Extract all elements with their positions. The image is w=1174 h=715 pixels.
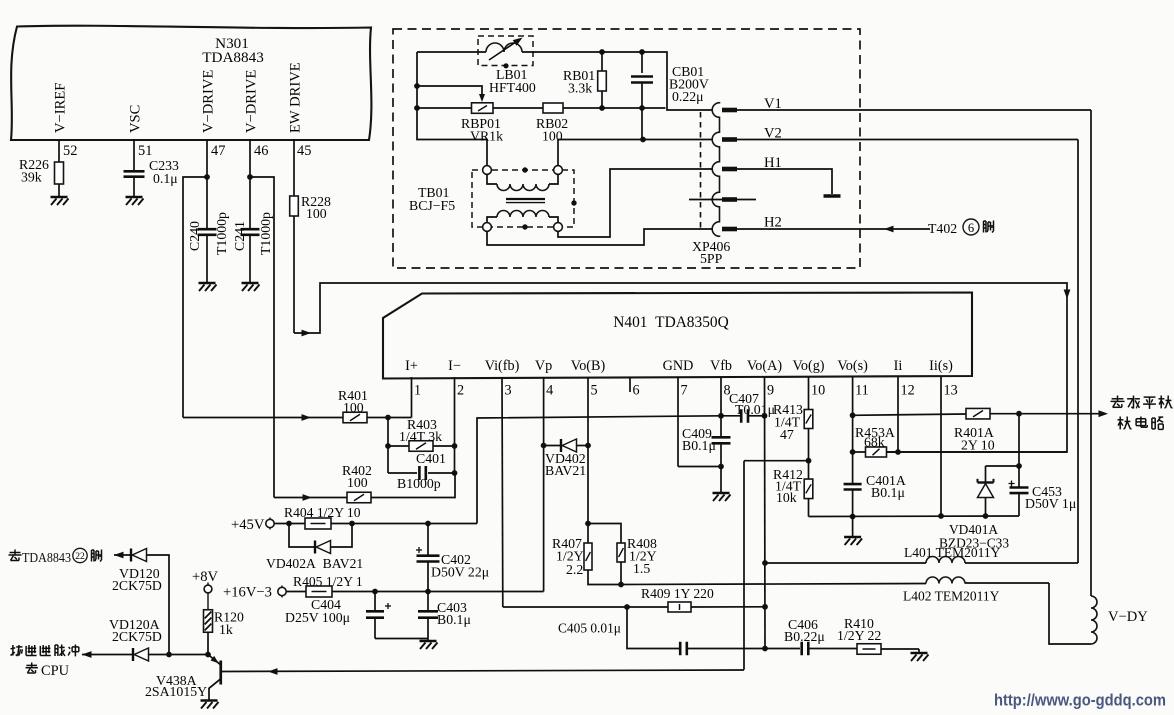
svg-text:B0.1μ: B0.1μ <box>682 438 716 453</box>
svg-text:BCJ−F5: BCJ−F5 <box>409 198 455 213</box>
svg-text:Vo(s): Vo(s) <box>837 358 868 374</box>
svg-text:N401 TDA8350Q: N401 TDA8350Q <box>613 314 728 331</box>
svg-text:100: 100 <box>542 129 563 144</box>
svg-text:47: 47 <box>211 143 225 159</box>
svg-text:+8V: +8V <box>192 569 219 585</box>
svg-text:22: 22 <box>75 551 85 562</box>
svg-text:B0.22μ: B0.22μ <box>784 629 825 644</box>
svg-text:I+: I+ <box>405 358 418 374</box>
svg-text:T0.01μ: T0.01μ <box>735 402 775 417</box>
svg-text:1.5: 1.5 <box>633 561 650 576</box>
svg-text:4: 4 <box>546 383 553 399</box>
svg-text:CPU: CPU <box>41 663 70 679</box>
svg-text:B0.1μ: B0.1μ <box>871 485 905 500</box>
svg-text:http://www.go-gddq.com: http://www.go-gddq.com <box>994 692 1166 710</box>
svg-text:52: 52 <box>63 143 77 159</box>
svg-text:0.22μ: 0.22μ <box>672 89 704 104</box>
svg-text:3: 3 <box>505 383 512 399</box>
svg-text:2.2: 2.2 <box>566 562 583 577</box>
svg-text:R404 1/2Y 10: R404 1/2Y 10 <box>284 505 361 520</box>
svg-text:GND: GND <box>663 358 694 374</box>
svg-text:R409 1Y 220: R409 1Y 220 <box>641 586 714 601</box>
svg-text:68k: 68k <box>864 435 885 450</box>
svg-text:C405 0.01μ: C405 0.01μ <box>558 621 621 636</box>
svg-text:V−DY: V−DY <box>1108 609 1148 625</box>
svg-text:9: 9 <box>767 383 774 399</box>
svg-text:11: 11 <box>855 383 869 399</box>
svg-text:2SA1015Y: 2SA1015Y <box>145 684 207 699</box>
svg-text:C240: C240 <box>187 221 202 251</box>
svg-text:Vi(fb): Vi(fb) <box>485 358 520 374</box>
svg-text:L401 TEM2011Y: L401 TEM2011Y <box>904 545 1001 560</box>
svg-text:1/2Y 22: 1/2Y 22 <box>837 628 881 643</box>
svg-text:Ii(s): Ii(s) <box>929 358 953 374</box>
svg-text:+45V: +45V <box>231 517 265 533</box>
svg-text:T1000p: T1000p <box>214 212 229 255</box>
svg-text:Vp: Vp <box>535 358 552 374</box>
svg-text:T402: T402 <box>928 221 957 236</box>
svg-text:HFT400: HFT400 <box>489 80 536 95</box>
svg-text:I−: I− <box>448 358 461 374</box>
svg-text:VSC: VSC <box>128 105 144 133</box>
svg-text:Vo(A): Vo(A) <box>747 358 782 374</box>
svg-text:1k: 1k <box>219 622 233 637</box>
svg-text:EW DRIVE: EW DRIVE <box>288 62 304 133</box>
svg-text:0.1μ: 0.1μ <box>153 171 178 186</box>
svg-text:D50V 1μ: D50V 1μ <box>1025 496 1076 511</box>
svg-text:1: 1 <box>414 383 421 399</box>
svg-text:6: 6 <box>633 383 640 399</box>
svg-text:13: 13 <box>944 383 958 399</box>
svg-text:46: 46 <box>254 143 268 159</box>
svg-text:V−DRIVE: V−DRIVE <box>201 70 217 133</box>
svg-text:2CK75D: 2CK75D <box>112 578 162 593</box>
svg-text:5PP: 5PP <box>700 251 723 266</box>
svg-text:2CK75D: 2CK75D <box>112 629 162 644</box>
svg-text:R405 1/2Y 1: R405 1/2Y 1 <box>293 574 363 589</box>
svg-text:45: 45 <box>297 143 311 159</box>
svg-text:C241: C241 <box>232 221 247 251</box>
svg-text:L402 TEM2011Y: L402 TEM2011Y <box>903 589 1000 604</box>
svg-text:10k: 10k <box>776 490 797 505</box>
svg-text:100: 100 <box>343 400 364 415</box>
svg-text:100: 100 <box>306 206 327 221</box>
svg-text:2Y 10: 2Y 10 <box>961 438 995 453</box>
svg-text:Ii: Ii <box>894 358 903 374</box>
svg-text:B0.1μ: B0.1μ <box>437 612 471 627</box>
svg-text:C401: C401 <box>416 451 446 466</box>
svg-text:Vfb: Vfb <box>710 358 732 374</box>
svg-text:5: 5 <box>591 383 598 399</box>
svg-text:2: 2 <box>457 383 464 399</box>
svg-text:Vo(B): Vo(B) <box>571 358 606 374</box>
svg-text:Vo(g): Vo(g) <box>792 358 824 374</box>
svg-text:VD402A BAV21: VD402A BAV21 <box>266 556 363 571</box>
svg-text:1/4T 3k: 1/4T 3k <box>399 429 442 444</box>
svg-text:H2: H2 <box>764 215 782 231</box>
svg-text:51: 51 <box>138 143 152 159</box>
svg-text:D25V 100μ: D25V 100μ <box>285 610 350 625</box>
svg-text:T1000p: T1000p <box>258 212 273 255</box>
svg-text:VR1k: VR1k <box>470 129 503 144</box>
svg-text:BAV21: BAV21 <box>545 463 586 478</box>
svg-text:3.3k: 3.3k <box>568 81 592 96</box>
svg-text:V−IREF: V−IREF <box>53 83 69 133</box>
svg-text:+16V−3: +16V−3 <box>223 585 272 601</box>
svg-text:10: 10 <box>811 383 825 399</box>
svg-text:D50V 22μ: D50V 22μ <box>431 565 489 580</box>
svg-text:39k: 39k <box>21 170 42 185</box>
svg-text:7: 7 <box>681 383 688 399</box>
svg-text:V−DRIVE: V−DRIVE <box>244 70 260 133</box>
svg-text:TDA8843: TDA8843 <box>22 550 71 565</box>
svg-text:100: 100 <box>347 475 368 490</box>
svg-text:47: 47 <box>780 427 794 442</box>
svg-text:TDA8843: TDA8843 <box>202 49 264 66</box>
svg-text:B1000p: B1000p <box>397 476 441 491</box>
svg-text:12: 12 <box>901 383 915 399</box>
svg-text:6: 6 <box>968 221 974 235</box>
